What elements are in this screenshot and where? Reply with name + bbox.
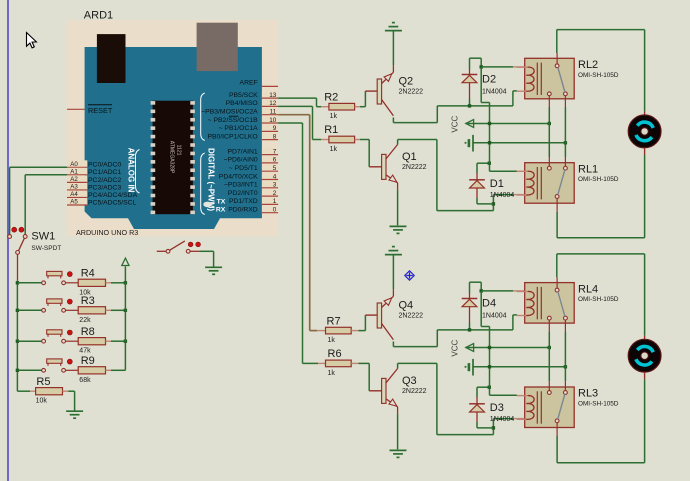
svg-text:68k: 68k [79,377,91,384]
svg-text:OMI-SH-105D: OMI-SH-105D [578,296,619,303]
svg-text:R6: R6 [328,348,342,360]
svg-text:PC1/ADC1: PC1/ADC1 [88,169,121,176]
svg-text:1121: 1121 [176,145,182,156]
svg-text:PD4/T0/XCK: PD4/T0/XCK [219,173,258,180]
svg-text:R1: R1 [324,124,338,136]
svg-text:PD2/INT0: PD2/INT0 [228,190,258,197]
svg-text:SW-SPDT: SW-SPDT [31,245,61,252]
svg-text:~ PD5/T1: ~ PD5/T1 [229,165,258,172]
svg-text:R7: R7 [327,315,341,327]
svg-text:R3: R3 [81,295,95,307]
svg-text:R8: R8 [81,326,95,338]
svg-text:Q3: Q3 [402,375,417,387]
svg-text:RL4: RL4 [578,283,598,295]
svg-text:1N4004: 1N4004 [490,416,515,423]
svg-text:ARDUINO UNO R3: ARDUINO UNO R3 [76,228,138,237]
svg-text:R5: R5 [36,376,50,388]
svg-text:OMI-SH-105D: OMI-SH-105D [578,176,619,183]
svg-text:1N4004: 1N4004 [482,88,507,95]
svg-text:2N2222: 2N2222 [399,313,424,320]
svg-text:10k: 10k [36,398,48,405]
svg-text:PC5/ADC5/SCL: PC5/ADC5/SCL [88,199,137,206]
svg-text:D3: D3 [490,402,504,414]
svg-text:PB4/MISO: PB4/MISO [226,100,258,107]
svg-text:1N4004: 1N4004 [482,312,507,319]
svg-text:R9: R9 [81,355,95,367]
svg-text:PC2/ADC2: PC2/ADC2 [88,177,121,184]
svg-text:ARD1: ARD1 [84,10,113,22]
svg-text:D4: D4 [482,297,496,309]
svg-text:PD0/RXD: PD0/RXD [228,207,258,214]
svg-text:PD1/TXD: PD1/TXD [229,198,258,205]
svg-text:ANALOG IN: ANALOG IN [127,148,136,193]
svg-text:R2: R2 [324,91,338,103]
svg-text:PD7/AIN1: PD7/AIN1 [227,148,257,155]
svg-text:22k: 22k [79,317,91,324]
svg-text:~ PB2/SS/OC1B: ~ PB2/SS/OC1B [208,117,259,124]
svg-text:2N2222: 2N2222 [399,89,424,96]
svg-text:RL2: RL2 [578,59,598,71]
svg-text:R4: R4 [81,268,95,280]
svg-text:~PD6/AIN0: ~PD6/AIN0 [223,157,257,164]
svg-text:PC0/ADC0: PC0/ADC0 [88,162,121,169]
svg-text:~PB3/MOSI/OC2A: ~PB3/MOSI/OC2A [201,109,258,116]
svg-text:~ PB1/OC1A: ~ PB1/OC1A [219,125,259,132]
svg-text:RESET: RESET [88,106,113,115]
svg-text:SW1: SW1 [31,231,55,243]
svg-text:PB5/SCK: PB5/SCK [229,92,258,99]
svg-text:ATMEGA328P: ATMEGA328P [169,141,175,174]
svg-text:1N4004: 1N4004 [490,192,515,199]
svg-text:PC3/ADC3: PC3/ADC3 [88,184,121,191]
svg-text:D1: D1 [490,178,504,190]
svg-text:Q2: Q2 [399,75,414,87]
svg-text:PC4/ADC4/SDA: PC4/ADC4/SDA [88,192,138,199]
svg-text:RL1: RL1 [578,163,598,175]
svg-text:OMI-SH-105D: OMI-SH-105D [578,72,619,79]
svg-text:Q4: Q4 [399,299,414,311]
svg-text:1k: 1k [330,113,338,120]
svg-text:1k: 1k [328,370,336,377]
svg-text:2N2222: 2N2222 [402,388,427,395]
svg-text:AREF: AREF [240,80,258,87]
svg-text:TX: TX [217,198,226,205]
svg-text:1k: 1k [328,337,336,344]
svg-text:1k: 1k [330,146,338,153]
svg-text:OMI-SH-105D: OMI-SH-105D [578,401,619,408]
svg-text:47k: 47k [79,348,91,355]
svg-text:PB0/ICP1/CLKO: PB0/ICP1/CLKO [207,133,257,140]
svg-text:D2: D2 [482,73,496,85]
svg-text:VCC: VCC [451,340,460,357]
svg-text:RX: RX [216,207,226,214]
svg-text:2N2222: 2N2222 [402,164,427,171]
svg-text:~PD3/INT1: ~PD3/INT1 [224,182,258,189]
svg-text:VCC: VCC [451,116,460,133]
svg-text:Q1: Q1 [402,151,417,163]
svg-text:RL3: RL3 [578,388,598,400]
